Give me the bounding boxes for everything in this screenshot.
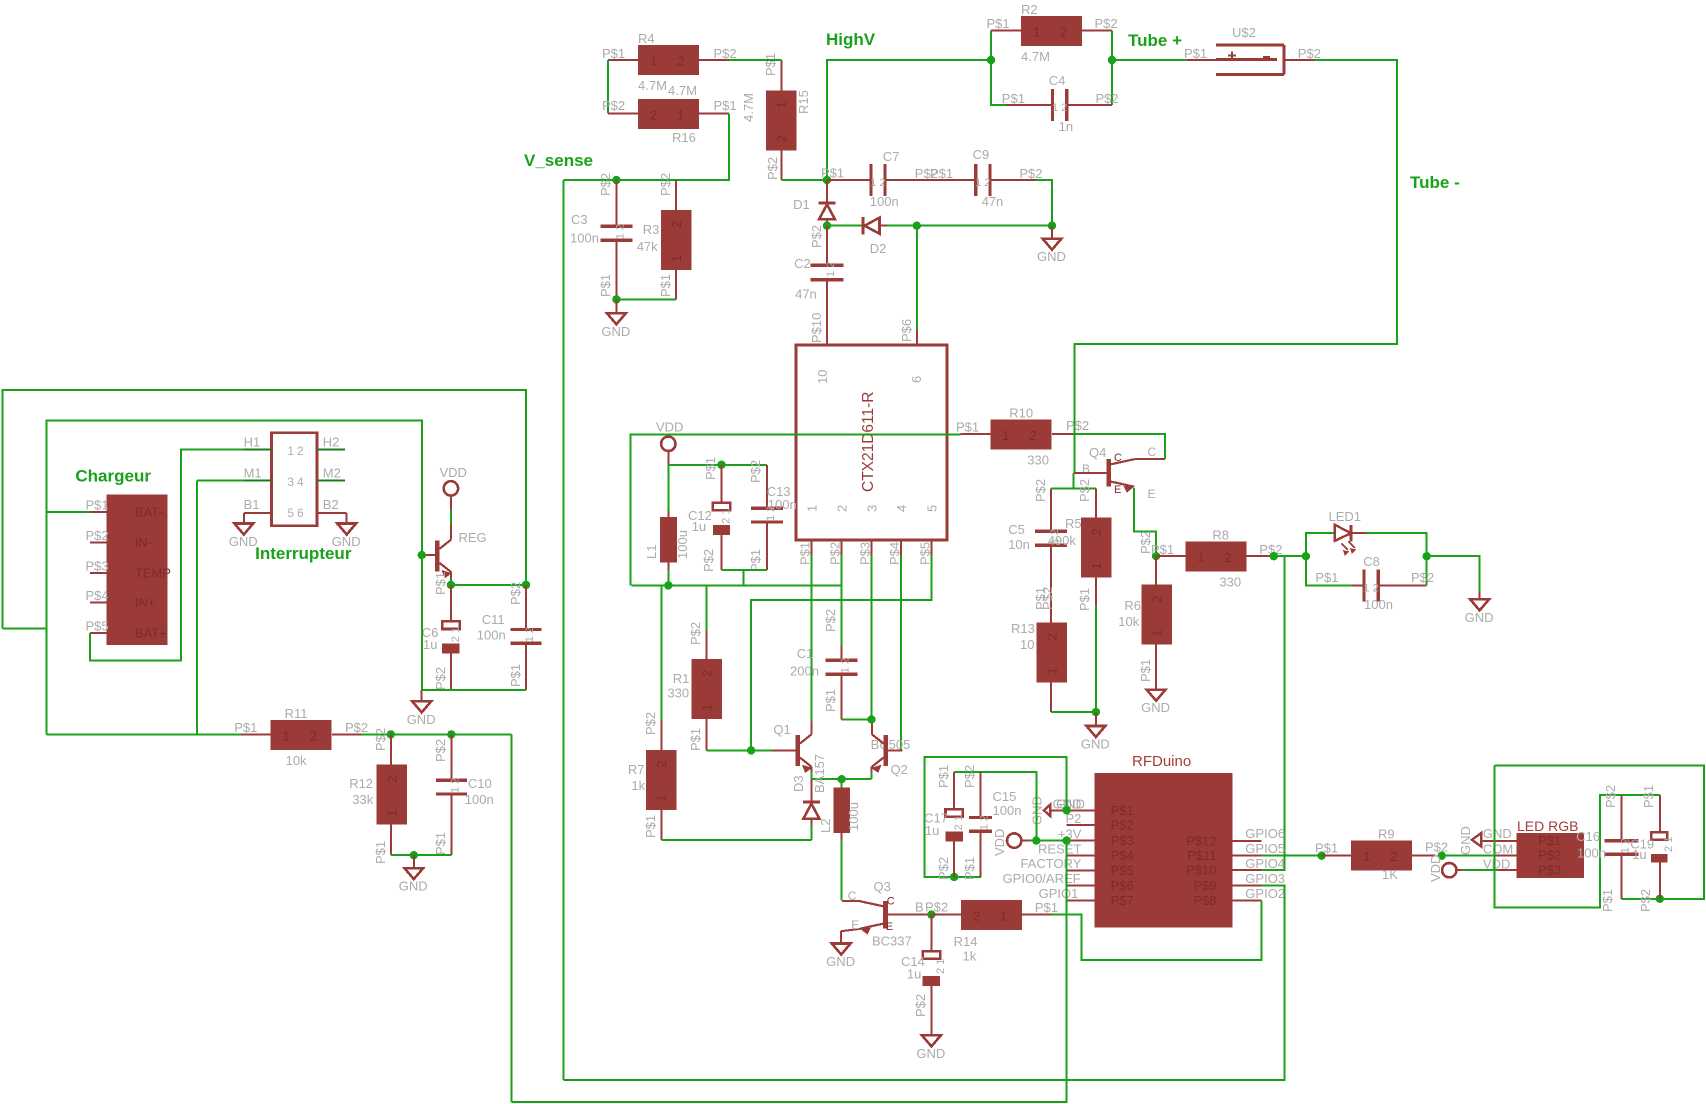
wire outer loop joins riser [2,628,46,630]
wire VDD loop C15/C17 [954,772,1036,841]
wire left riser to REG base [46,421,421,735]
net label Interrupteur [255,544,352,563]
svg-text:C4: C4 [1049,73,1066,88]
svg-text:1u: 1u [692,519,706,534]
svg-text:GND: GND [1465,610,1494,625]
capacitor C10 [433,734,494,855]
svg-text:330: 330 [1027,453,1049,468]
svg-text:C16: C16 [1576,829,1600,844]
svg-text:2: 2 [1089,528,1104,535]
svg-text:P$10: P$10 [1186,863,1216,878]
svg-text:P$1: P$1 [930,166,953,181]
svg-text:C3: C3 [571,212,588,227]
svg-text:C: C [1148,445,1157,459]
svg-text:E: E [886,921,893,933]
junction R2.P1 [987,56,995,64]
resistor R6 [1118,531,1172,690]
junction GND at P$1 [1062,806,1070,814]
svg-text:1 2: 1 2 [288,446,304,458]
svg-text:R15: R15 [796,90,811,114]
svg-text:5: 5 [924,505,939,512]
svg-text:47k: 47k [637,239,658,254]
svg-text:2: 2 [1149,595,1164,602]
wire C12-C13 bottoms [722,570,768,585]
wire GPIO4 riser [1261,556,1284,870]
svg-text:P$2: P$2 [913,994,928,1017]
wire R8.P2 to LED node [1274,555,1306,557]
svg-text:H1: H1 [244,435,261,450]
svg-text:C15: C15 [993,789,1017,804]
svg-text:1 2: 1 2 [1052,102,1067,114]
svg-text:1: 1 [1033,25,1040,40]
ground GND below C3 [601,299,630,338]
svg-text:FACTORY: FACTORY [1020,856,1081,871]
svg-text:P$4: P$4 [1111,848,1134,863]
svg-text:VDD: VDD [1483,856,1510,871]
svg-text:GPIO5: GPIO5 [1245,841,1285,856]
wire R10.P2 to Q4.C [1074,434,1165,459]
svg-text:2: 2 [310,728,317,743]
svg-text:B1: B1 [244,497,260,512]
svg-text:P$2: P$2 [1411,570,1434,585]
svg-text:10k: 10k [1118,614,1139,629]
power VDD at LED RGB [1428,855,1517,882]
capacitor C5 [1008,479,1067,623]
svg-text:1: 1 [774,101,789,108]
svg-text:C: C [1114,452,1122,464]
svg-text:P$2: P$2 [714,46,737,61]
svg-text:1: 1 [1044,667,1059,674]
svg-text:490k: 490k [1048,533,1077,548]
junction R9.P1 [1317,852,1325,860]
svg-text:1: 1 [804,505,819,512]
transistor Q1 [773,721,910,773]
wire R4.P2 to R15.P1 [729,59,781,61]
svg-text:P$1: P$1 [433,572,448,595]
svg-text:R6: R6 [1124,598,1141,613]
junction VDD at +3V pin [1062,836,1070,844]
wire GPIO1 drop [1066,900,1068,902]
ground GND below REG [407,690,436,727]
capacitor C9 [973,147,1043,209]
svg-text:33k: 33k [352,792,373,807]
wire M1 to R11 [197,480,244,734]
ground GND below Q3 [826,944,855,970]
capacitor C1 [790,585,857,719]
svg-text:1 2: 1 2 [978,815,990,830]
svg-text:P$6: P$6 [1111,878,1134,893]
wire C9.P2 to GND [1035,180,1052,226]
svg-text:2 1: 2 1 [935,959,947,974]
svg-text:1u: 1u [925,823,939,838]
transistor REG [422,526,487,578]
geiger tube U$2 [1184,25,1321,75]
capacitor C16 [1576,785,1639,912]
diode D3 [791,754,827,840]
junction Q1 base [747,746,755,754]
wire GPIO3 to V_sense [564,885,1285,1080]
svg-text:P$1: P$1 [658,274,673,297]
wire VDD rail [630,434,960,585]
ground GND below R6 [1141,690,1170,716]
svg-text:1 2: 1 2 [449,778,461,793]
svg-text:P$1: P$1 [797,542,812,565]
svg-text:P$2: P$2 [688,622,703,645]
svg-text:P$2: P$2 [1425,840,1448,855]
svg-text:R7: R7 [628,762,645,777]
svg-text:1: 1 [1089,562,1104,569]
svg-text:P$5: P$5 [917,542,932,565]
junction D1-D2-C2 [823,222,831,230]
svg-text:D2: D2 [870,241,887,256]
svg-text:P$2: P$2 [809,225,824,248]
junction R5 bottom [1092,708,1100,716]
svg-text:R16: R16 [672,130,696,145]
wire R7.P1 to D3 [662,839,812,841]
svg-text:10k: 10k [286,753,307,768]
svg-text:1: 1 [677,108,684,123]
svg-text:GPIO2: GPIO2 [1245,886,1285,901]
wire +3V down to GPIO1 net [511,841,1066,1103]
ground GND below R12 [399,855,428,893]
svg-text:P$9: P$9 [1193,878,1216,893]
junction REG emitter [447,581,455,589]
resistor R2 [987,2,1118,64]
svg-text:2: 2 [677,54,684,69]
wire Q4 emitter [1134,488,1156,556]
capacitor C12 [688,457,733,572]
svg-text:C: C [887,896,895,908]
svg-text:Q3: Q3 [874,879,891,894]
junction Q4.E-R8-R6 [1152,552,1160,560]
power VDD at +3V [992,829,1067,856]
svg-text:100n: 100n [768,497,797,512]
transistor Q2 [871,721,908,777]
svg-text:P$1: P$1 [1641,785,1656,808]
svg-text:2: 2 [650,108,657,123]
svg-text:P$2: P$2 [1603,785,1618,808]
svg-text:R14: R14 [954,934,978,949]
svg-text:P$1: P$1 [1138,659,1153,682]
junction L1 bottom [664,581,672,589]
svg-text:2: 2 [1029,428,1036,443]
svg-text:4: 4 [894,505,909,512]
svg-text:P$8: P$8 [1193,893,1216,908]
svg-text:P$1: P$1 [1035,900,1058,915]
svg-text:V_sense: V_sense [524,151,593,170]
svg-text:1u: 1u [907,967,921,982]
wire R11 node down [510,734,512,1102]
capacitor C11 [477,582,542,690]
inductor L1 [644,465,690,586]
wire R2.P2 to Tube+ [1112,30,1187,105]
wire Tube- to Q4 base [1074,473,1107,489]
svg-text:P$2: P$2 [602,98,625,113]
svg-text:P$1: P$1 [1151,542,1174,557]
svg-text:P$11: P$11 [1187,848,1216,863]
svg-text:C11: C11 [482,612,505,627]
svg-text:1k: 1k [963,949,977,964]
svg-text:P$7: P$7 [1111,893,1134,908]
svg-text:330: 330 [667,686,689,701]
svg-text:P$2: P$2 [86,528,109,543]
svg-text:1u: 1u [423,637,437,652]
wire Q2 emitter [871,767,873,780]
svg-text:U$2: U$2 [1232,25,1256,40]
power VDD symbol (left) [656,420,683,465]
svg-text:P$1: P$1 [643,815,658,838]
IC Chargeur [75,467,171,646]
svg-text:P$1: P$1 [823,689,838,712]
svg-text:2 1: 2 1 [450,627,462,642]
svg-text:47n: 47n [795,287,817,302]
junction L2 top [837,775,845,783]
svg-text:P$2: P$2 [962,765,977,788]
svg-text:P$2: P$2 [1095,16,1118,31]
wire C3-R3 bottoms [616,298,676,300]
ground GND right of C8 [1465,599,1494,625]
ground GND right of D2 [1037,226,1066,265]
svg-text:1 2: 1 2 [1363,583,1378,595]
resistor R4 [602,31,737,93]
svg-text:E: E [1148,487,1156,501]
svg-text:R9: R9 [1378,827,1395,842]
svg-text:P$1: P$1 [987,16,1010,31]
svg-text:COM: COM [1483,841,1513,856]
svg-text:C: C [848,889,857,903]
svg-text:LED1: LED1 [1329,509,1362,524]
svg-text:100n: 100n [1364,597,1393,612]
junction Q2 collector [867,715,875,723]
svg-text:P$2: P$2 [765,157,780,180]
resistor R3 [637,173,692,300]
wire HighV vertical [827,60,991,180]
svg-text:P$2: P$2 [827,542,842,565]
svg-text:4.7M: 4.7M [668,83,697,98]
svg-text:P$2: P$2 [345,720,368,735]
svg-text:P$1: P$1 [714,98,737,113]
wire REG emitter rail [451,572,526,585]
svg-text:1n: 1n [1059,119,1073,134]
svg-text:1: 1 [1002,428,1009,443]
svg-text:Tube -: Tube - [1410,173,1460,192]
svg-text:1 2: 1 2 [975,177,990,189]
svg-text:R1: R1 [673,671,690,686]
svg-text:P$1: P$1 [763,53,778,76]
svg-text:P$1: P$1 [1002,91,1025,106]
svg-text:P$5: P$5 [86,618,109,633]
svg-text:1: 1 [1363,849,1370,864]
svg-text:IN-: IN- [135,535,152,550]
svg-text:2: 2 [384,775,399,782]
resistor R11 [234,706,368,768]
svg-text:BC337: BC337 [872,934,912,949]
svg-text:P$1: P$1 [936,765,951,788]
svg-text:VDD: VDD [1428,855,1443,882]
junction C10 top [447,730,455,738]
svg-text:R12: R12 [349,776,373,791]
svg-text:C5: C5 [1008,522,1025,537]
svg-text:P$2: P$2 [1538,848,1561,863]
svg-text:2: 2 [1390,849,1397,864]
svg-text:CTX21D611-R: CTX21D611-R [860,391,877,492]
svg-text:P$1: P$1 [1077,588,1092,611]
capacitor C17 [924,765,965,880]
svg-text:P$2: P$2 [748,460,763,483]
svg-text:2: 2 [1044,633,1059,640]
LED LED1 [1306,509,1427,556]
resistor R7 [628,585,676,840]
wire R9.P2 to LED COM [1442,855,1517,857]
svg-text:100u: 100u [846,802,861,831]
capacitor C19 [1630,785,1675,912]
svg-text:100n: 100n [465,792,494,807]
power VDD at REG [440,465,467,528]
svg-text:P$2: P$2 [1033,479,1048,502]
svg-text:100u: 100u [675,530,690,559]
svg-text:1 2: 1 2 [614,224,626,239]
svg-text:P$1: P$1 [1184,46,1207,61]
svg-text:P$1: P$1 [748,549,763,572]
svg-text:GND: GND [1037,249,1066,264]
resistor R8 [1151,528,1282,590]
capacitor C7 [821,149,974,209]
svg-text:1K: 1K [1382,867,1398,882]
svg-text:R10: R10 [1009,406,1033,421]
svg-text:C7: C7 [883,149,900,164]
svg-text:P$1: P$1 [598,274,613,297]
svg-text:P$2: P$2 [1638,889,1653,912]
svg-text:REG: REG [459,530,487,545]
svg-text:E: E [1114,484,1121,496]
svg-text:P$1: P$1 [962,857,977,880]
wire C1 to Q2 collector [841,718,871,720]
capacitor C3 [570,173,632,300]
junction REG base [418,551,426,559]
svg-text:P$1: P$1 [1315,570,1338,585]
svg-text:P$1: P$1 [508,664,523,687]
svg-text:100n: 100n [1577,846,1606,861]
resistor R1 [667,585,721,751]
svg-text:P$1: P$1 [821,166,844,181]
svg-text:P$1: P$1 [1111,803,1134,818]
svg-text:P$4: P$4 [887,542,902,565]
svg-text:P$2: P$2 [1040,587,1055,610]
svg-text:1: 1 [654,795,669,802]
wire pin3 drop [870,556,872,720]
svg-text:2 1: 2 1 [953,815,965,830]
resistor R15 [741,53,811,180]
wire pin6 drop [899,226,917,345]
svg-text:P$2: P$2 [508,582,523,605]
capacitor C15 [962,765,1021,880]
svg-text:GND: GND [229,534,258,549]
junction VDD inner [1032,836,1040,844]
svg-text:P$2: P$2 [1077,479,1092,502]
wire C6-C11 bottoms [422,555,526,690]
svg-text:C2: C2 [794,256,811,271]
IC LED RGB [1483,818,1584,878]
wire R15.P2 to HighV node [781,179,827,181]
svg-text:2: 2 [654,761,669,768]
ground GND below C14 [916,1035,945,1061]
wire Q3 emitter to GND [840,931,842,943]
svg-text:1: 1 [1000,909,1007,924]
junction R12 bottom [410,851,418,859]
svg-text:Tube +: Tube + [1128,31,1182,50]
wire R11.P2 rail [362,733,512,735]
capacitor C2 [794,226,843,345]
svg-text:1 2: 1 2 [825,262,837,277]
svg-text:RFDuino: RFDuino [1132,753,1191,770]
ground GND below R5 [1081,712,1110,751]
svg-text:GPIO4: GPIO4 [1245,856,1285,871]
svg-text:P$4: P$4 [86,588,109,603]
svg-text:GND: GND [601,324,630,339]
svg-text:GND: GND [407,712,436,727]
svg-text:2: 2 [669,221,684,228]
wire GND loop around C15/C17 [925,757,1067,877]
transistor Q4 [1082,445,1165,501]
resistor R9 [1315,827,1448,882]
ground flag at RFDuino P$1 [1030,796,1085,825]
svg-text:P$6: P$6 [899,319,914,342]
svg-text:RESET: RESET [1038,841,1081,856]
junction LED1-C8 right [1423,552,1431,560]
wire R1.P1 to Q1 base [707,749,752,751]
svg-text:P$3: P$3 [1538,863,1561,878]
net label V_sense [524,151,593,170]
svg-text:10: 10 [1020,637,1034,652]
svg-text:P$1: P$1 [373,841,388,864]
svg-text:Q4: Q4 [1089,445,1106,460]
svg-text:P$3: P$3 [1111,833,1134,848]
svg-text:M2: M2 [323,465,341,480]
svg-text:6: 6 [909,376,924,383]
wire transformer pin2 rail [632,584,842,586]
svg-text:P$1: P$1 [433,832,448,855]
capacitor C8 [1306,554,1434,612]
svg-text:1: 1 [1197,550,1204,565]
svg-text:P$2: P$2 [1096,91,1119,106]
svg-text:GND: GND [1483,826,1512,841]
wire pin5 to Q1 base [751,556,931,751]
junction LED1-C8 left [1302,552,1310,560]
svg-text:GPIO3: GPIO3 [1245,871,1285,886]
svg-text:L2: L2 [818,819,833,833]
wire R4.P1 to R16.P2 [607,60,609,114]
svg-text:VDD: VDD [992,829,1007,856]
svg-text:E: E [851,918,859,932]
svg-text:10n: 10n [1008,537,1030,552]
wire C4.P1 [991,60,1006,105]
junction C19 bottom [1656,895,1664,903]
capacitor C4 [1002,73,1119,134]
wire D2 to GND net [887,225,1052,227]
svg-text:2: 2 [774,135,789,142]
svg-text:P$1: P$1 [86,497,109,512]
svg-text:5 6: 5 6 [288,508,304,520]
wire pin4 drop to Q2 base [900,556,902,751]
wire Q3 base [888,914,931,916]
svg-text:R11: R11 [285,706,308,721]
junction C12 top [717,461,725,469]
net label Tube + [1128,31,1182,50]
svg-text:2 1: 2 1 [1663,837,1675,852]
svg-text:1 2: 1 2 [839,658,851,673]
ground flag at LED RGB [1458,826,1517,855]
svg-text:GPIO6: GPIO6 [1245,826,1285,841]
